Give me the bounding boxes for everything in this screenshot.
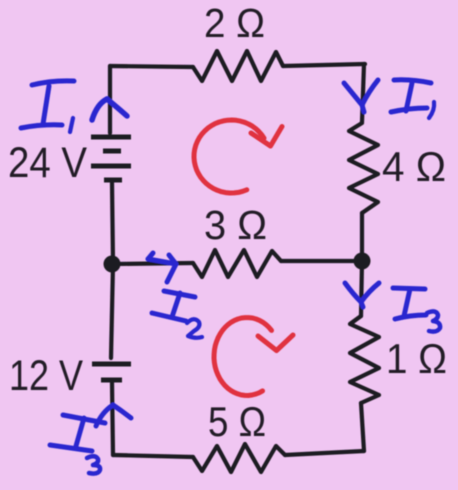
wire bottom left: [113, 455, 193, 457]
current label I3 right (blue): [393, 288, 440, 332]
resistor 2ohm zigzag: [193, 51, 283, 81]
svg-text:5 Ω: 5 Ω: [208, 398, 266, 445]
resistor 5ohm zigzag: [193, 444, 285, 472]
battery V1 24V plates: [91, 137, 131, 180]
current label I3 left (blue, tilted): [50, 415, 105, 474]
current label I1 right (blue): [391, 80, 434, 118]
current arrow I3 down (blue V, right side): [345, 283, 379, 307]
svg-text:4 Ω: 4 Ω: [382, 143, 446, 190]
wire bottom right: [285, 451, 364, 455]
wire left node to battery12: [111, 264, 113, 358]
battery V2 12V plates: [92, 364, 131, 380]
wire 4ohm to right node: [360, 213, 364, 259]
wire left battery24 to left node: [112, 182, 113, 263]
wire top horizontal left: [110, 66, 193, 67]
svg-text:12 V: 12 V: [9, 352, 83, 400]
resistor 3ohm zigzag: [193, 250, 281, 277]
resistor 1ohm zigzag: [350, 316, 379, 403]
wire right node to 1ohm: [361, 261, 362, 316]
loop arrow upper (red, clockwise): [194, 120, 282, 193]
node right (junction dot): [354, 253, 371, 270]
current arrow I1 up (blue, on 24V branch): [92, 99, 127, 120]
current label I1 left (blue): [21, 81, 74, 132]
wire battery12 to bottom corner: [112, 382, 113, 455]
wire right bottom vertical: [361, 403, 364, 451]
node left (junction dot): [104, 256, 121, 273]
loop arrow lower (red, clockwise): [214, 318, 293, 396]
wire right top vertical: [362, 64, 364, 122]
current arrow I1 down (blue V, top right): [344, 80, 378, 112]
wire middle right (3ohm to node): [281, 259, 362, 263]
resistor 4ohm zigzag: [349, 123, 378, 213]
current arrow I2 (blue, on middle wire): [148, 253, 176, 282]
svg-text:2 Ω: 2 Ω: [204, 0, 265, 46]
current arrow I3 up (blue, bottom left): [96, 405, 131, 426]
svg-text:1 Ω: 1 Ω: [386, 335, 447, 382]
wire top horizontal right: [283, 64, 365, 66]
wire top-left vertical (battery to top corner): [108, 66, 112, 133]
wire middle left (node to 3ohm): [113, 263, 193, 264]
current label I2 (blue, tilted): [152, 291, 202, 338]
svg-text:3 Ω: 3 Ω: [204, 202, 267, 248]
svg-text:24 V: 24 V: [8, 139, 87, 187]
